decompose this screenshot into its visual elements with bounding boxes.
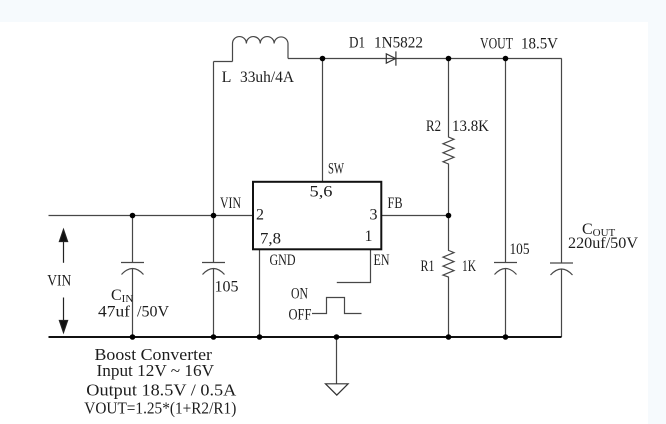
svg-text:105: 105 — [510, 241, 530, 258]
svg-text:Input 12V ~ 16V: Input 12V ~ 16V — [97, 361, 215, 380]
wire FB pin3 to node — [381, 215, 448, 217]
VIN arrow up — [59, 230, 67, 333]
svg-text:7,8: 7,8 — [260, 230, 281, 247]
svg-text:Output 18.5V / 0.5A: Output 18.5V / 0.5A — [86, 381, 237, 400]
diode D1 1N5822 — [386, 51, 396, 65]
inductor L 33uh/4A — [233, 37, 289, 62]
svg-text:VOUT: VOUT — [480, 36, 513, 53]
svg-text:R2: R2 — [426, 118, 441, 135]
svg-text:2: 2 — [256, 207, 264, 224]
resistor R1 — [443, 216, 454, 338]
bottom ground rail — [49, 336, 562, 338]
svg-text:3: 3 — [370, 207, 378, 224]
inductor L left lead — [214, 61, 233, 63]
svg-text:D1: D1 — [349, 35, 365, 52]
VIN arrow down — [63, 298, 65, 321]
capacitor 105 right branch wires — [505, 59, 507, 338]
capacitor C_IN branch wires — [132, 216, 134, 338]
capacitor C_OUT branch wires — [561, 59, 563, 338]
capacitor 105 left symbol — [202, 263, 225, 275]
svg-text:33uh/4A: 33uh/4A — [240, 69, 294, 86]
wire left vertical from inductor to VIN rail — [213, 62, 215, 216]
svg-text:OFF: OFF — [289, 306, 312, 323]
capacitor C_IN symbol — [121, 263, 144, 275]
svg-text:R1: R1 — [421, 258, 435, 275]
svg-text:L: L — [222, 69, 232, 86]
svg-text:18.5V: 18.5V — [521, 36, 558, 53]
svg-text:1: 1 — [365, 228, 373, 245]
capacitor 105 left branch wires — [213, 216, 215, 338]
wire ground stub — [336, 337, 338, 384]
svg-text:5,6: 5,6 — [310, 184, 333, 201]
svg-text:EN: EN — [374, 252, 390, 269]
wire GND from IC to bottom rail — [259, 249, 261, 337]
svg-text:FB: FB — [388, 195, 403, 212]
pulse waveform ON/OFF — [312, 298, 362, 314]
wire VIN rail — [49, 215, 254, 217]
wire SW vertical — [322, 59, 324, 182]
svg-text:13.8K: 13.8K — [452, 118, 489, 135]
wire VOUT top rail — [288, 58, 562, 60]
svg-text:ON: ON — [291, 285, 308, 302]
svg-text:SW: SW — [328, 161, 345, 178]
capacitor C_OUT symbol — [550, 263, 573, 275]
svg-text:GND: GND — [270, 252, 296, 269]
svg-text:VOUT=1.25*(1+R2/R1): VOUT=1.25*(1+R2/R1) — [84, 399, 236, 418]
resistor R2 — [443, 59, 454, 216]
svg-text:/50V: /50V — [137, 304, 169, 321]
svg-text:VIN: VIN — [47, 273, 71, 290]
svg-text:VIN: VIN — [220, 195, 241, 212]
svg-text:47uf: 47uf — [98, 304, 131, 321]
IC box U1 — [253, 182, 381, 250]
svg-text:1K: 1K — [462, 258, 476, 275]
wire EN L-shape — [337, 249, 371, 282]
svg-text:105: 105 — [215, 279, 239, 296]
ground symbol — [326, 384, 349, 395]
capacitor 105 right symbol — [494, 263, 517, 275]
svg-text:220uf/50V: 220uf/50V — [568, 235, 638, 252]
svg-text:1N5822: 1N5822 — [374, 35, 423, 52]
